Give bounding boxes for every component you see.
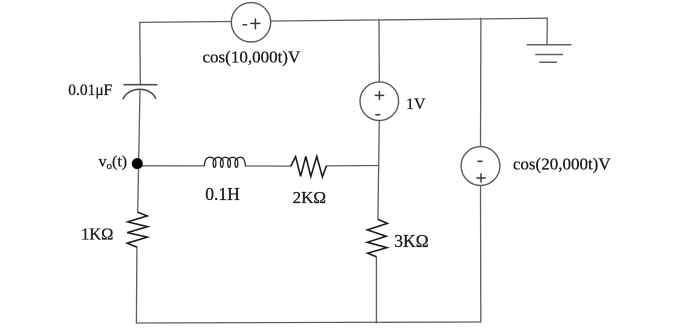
svg-text:3KΩ: 3KΩ [394,231,428,251]
svg-text:cos(20,000t)V: cos(20,000t)V [513,154,611,173]
svg-text:0.1H: 0.1H [205,184,240,204]
svg-text:1KΩ: 1KΩ [81,225,113,244]
svg-text:cos(10,000t)V: cos(10,000t)V [203,48,301,67]
svg-text:0.01μF: 0.01μF [68,82,112,99]
svg-text:1V: 1V [406,96,426,113]
svg-text:vo(t): vo(t) [99,153,128,172]
svg-text:2KΩ: 2KΩ [293,188,326,207]
